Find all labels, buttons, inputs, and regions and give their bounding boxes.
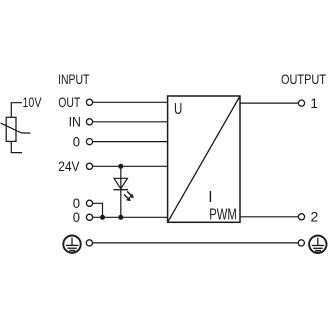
wire LED branch vertical [120,166,122,217]
svg-text:0: 0 [73,133,80,149]
junction dot on 24V wire [118,164,123,169]
terminal IN [86,119,92,125]
terminal 24V [86,163,92,169]
protective earth symbol left [63,236,80,253]
terminal 0 (upper common) [86,200,92,206]
svg-text:PWM: PWM [209,207,237,224]
svg-text:1: 1 [310,95,318,111]
potentiometer wiper arrow [1,123,31,133]
svg-text:OUTPUT: OUTPUT [281,71,326,87]
potentiometer bottom lead wire [11,141,22,152]
wire 0 rail to converter [93,216,168,218]
terminal 1 [298,100,304,106]
svg-text:I: I [208,189,212,206]
svg-text:IN: IN [69,114,81,130]
svg-text:U: U [174,101,182,118]
terminal 0 (third input row) [86,139,92,145]
svg-text:0: 0 [73,209,80,225]
potentiometer top lead wire [11,103,22,118]
converter U1 body [168,96,240,222]
terminal earth left [86,240,92,246]
terminal OUT [86,99,92,105]
potentiometer body [6,117,16,141]
svg-text:OUT: OUT [58,94,80,110]
wire 0 upper common down to bottom rail [93,203,103,217]
protective earth symbol right [309,236,326,253]
converter U1 diagonal [168,96,240,222]
svg-text:INPUT: INPUT [58,71,90,87]
wire OUT to converter [93,101,168,103]
junction dot rail right [118,215,123,220]
wire 0 to converter [93,141,168,143]
wire earth rail [93,242,298,244]
wire output 1 [240,102,298,104]
LED D1 cathode bar [113,189,128,191]
wire output 2 [240,216,298,218]
LED D1 triangle [114,178,128,188]
LED D1 light emission arrow 1 [127,191,134,198]
wire 24V to converter [93,165,168,167]
LED D1 light emission arrow 2 [124,195,131,202]
wire IN to converter [93,121,168,123]
terminal 0 (lower common) [86,214,92,220]
svg-text:10V: 10V [23,94,42,110]
svg-text:2: 2 [311,209,319,225]
junction dot rail left [100,215,105,220]
svg-text:24V: 24V [58,158,80,174]
terminal earth right [298,240,304,246]
terminal 2 [298,214,304,220]
